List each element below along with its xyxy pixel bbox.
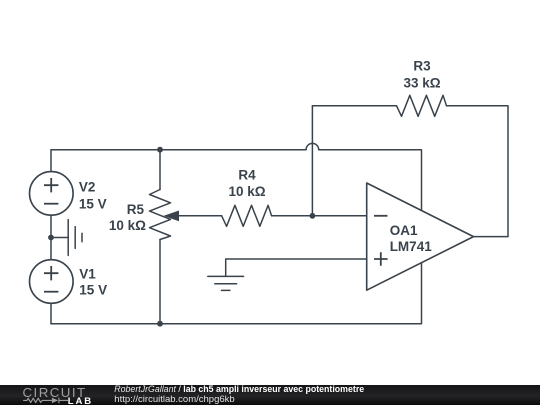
op-amp minus input symbol (374, 215, 388, 217)
op-amp OA1 triangle (367, 183, 474, 290)
resistor R4 zigzag (222, 205, 272, 226)
wire R4 right lead to op-amp inverting input (272, 215, 367, 217)
wire wiper to R4 (177, 215, 222, 217)
wire between V2 and V1 (node 0) (50, 215, 52, 259)
op-amp plus input symbol (374, 252, 388, 266)
svg-text:10 kΩ: 10 kΩ (228, 184, 265, 199)
wire R3 right lead, right rail down to output (447, 106, 509, 237)
ground GND1 (between V2 and V1, rotated right) (51, 220, 82, 256)
node junction dot (ground between sources) (48, 235, 54, 241)
footer bar (0, 385, 540, 405)
svg-text:LAB: LAB (68, 396, 93, 405)
label OA1 LM741 (390, 223, 433, 254)
svg-text:V1: V1 (79, 266, 96, 281)
label R5 (109, 202, 146, 233)
svg-text:R3: R3 (413, 59, 431, 74)
svg-text:15 V: 15 V (79, 197, 107, 212)
wire left rail top (to V2) (50, 150, 52, 172)
wire feedback vertical (inverting node up) (311, 106, 313, 216)
node junction dot (R5 bottom) (157, 321, 163, 327)
svg-text:LM741: LM741 (390, 239, 433, 254)
svg-text:R4: R4 (238, 167, 256, 182)
svg-text:V2: V2 (79, 179, 96, 194)
potentiometer R5 zigzag (150, 190, 171, 240)
svg-text:OA1: OA1 (390, 223, 418, 238)
wire bottom rail to op-amp V- pin (51, 263, 422, 324)
label R4 (228, 167, 265, 198)
potentiometer R5 wiper arrow (164, 211, 180, 222)
wire R3 left lead (312, 105, 396, 107)
node junction dot (R5 top) (157, 147, 163, 153)
svg-text:http://circuitlab.com/chpg6kb: http://circuitlab.com/chpg6kb (114, 394, 234, 405)
label R3 (403, 59, 440, 91)
svg-text:10 kΩ: 10 kΩ (109, 218, 146, 233)
svg-text:RobertJrGallant / lab ch5 ampl: RobertJrGallant / lab ch5 ampli inverseu… (114, 384, 364, 394)
label V1 (79, 266, 107, 297)
voltage source V1 (30, 260, 74, 304)
label V2 (79, 179, 107, 211)
wire R5 top lead (159, 150, 161, 190)
svg-text:15 V: 15 V (79, 282, 107, 297)
wire R5 bottom lead (159, 240, 161, 324)
wire op-amp noninverting input to ground (226, 259, 367, 276)
svg-text:33 kΩ: 33 kΩ (403, 76, 440, 91)
node junction dot (inverting input / feedback) (310, 213, 316, 219)
voltage source V2 (30, 172, 74, 216)
resistor R3 zigzag (397, 95, 447, 116)
CircuitLab logo resistor-diode art (23, 398, 68, 404)
wire top rail with hop over feedback (51, 143, 422, 210)
svg-text:R5: R5 (127, 202, 145, 217)
wire V1 bottom to bottom rail (50, 303, 52, 323)
ground GND2 (op-amp + input) (208, 276, 244, 290)
